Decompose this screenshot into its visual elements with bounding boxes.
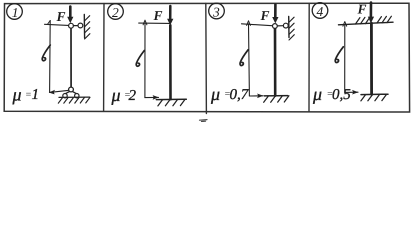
svg-text:3: 3	[212, 4, 220, 19]
ground line panel 1	[59, 96, 90, 98]
top link bar panel 1	[73, 25, 78, 27]
top pin circle panel 3	[273, 24, 278, 29]
svg-text:μ: μ	[210, 84, 220, 104]
wall hatching panel 3	[289, 17, 295, 40]
panel divider 2	[205, 4, 208, 114]
outer border frame	[4, 3, 409, 112]
label l (script ell) panel 2	[136, 51, 144, 67]
left roller panel 1	[63, 94, 67, 98]
circled number 1	[7, 4, 23, 20]
svg-text:1: 1	[12, 5, 19, 20]
ground line panel 2	[156, 98, 186, 100]
column (bar) panel 3	[274, 28, 277, 95]
bottom pin circle panel 1	[69, 87, 74, 92]
svg-text:1: 1	[32, 87, 40, 103]
label l (script ell) panel 4	[335, 47, 343, 63]
label l (script ell) panel 1	[42, 45, 50, 61]
svg-text:4: 4	[317, 4, 324, 19]
svg-text:0,7: 0,7	[230, 87, 250, 103]
label mu=0,7 panel 3	[210, 84, 250, 104]
svg-text:2: 2	[129, 88, 137, 104]
svg-text:F: F	[56, 9, 66, 24]
dimension line l panel 2	[143, 20, 147, 97]
wall line panel 1	[83, 15, 85, 39]
svg-text:F: F	[260, 8, 270, 23]
top roller circle panel 1	[78, 23, 83, 28]
top roller circle panel 3	[283, 23, 288, 28]
circled number 2	[108, 4, 124, 20]
column (bar) panel 2	[169, 25, 172, 99]
top extension line panel 3	[242, 24, 273, 26]
ground hatching panel 3	[264, 96, 289, 102]
top pin circle panel 1	[69, 23, 74, 28]
label l (script ell) panel 3	[240, 50, 248, 66]
dimension line l panel 3	[247, 21, 251, 96]
top extension line panel 2	[139, 22, 170, 24]
column (bar) panel 1	[70, 28, 72, 87]
bottom extension arrow panel 1	[49, 90, 68, 95]
force arrow F panel 2	[167, 6, 173, 25]
ground hatching panel 2	[158, 99, 185, 105]
top link bar panel 3	[277, 25, 283, 27]
svg-text:2: 2	[112, 5, 119, 20]
ground hatching panel 4	[361, 94, 387, 100]
ground hatching panel 1	[58, 97, 90, 103]
ground line panel 4	[361, 93, 388, 95]
bottom extension arrow panel 3	[249, 94, 263, 99]
pin legs panel 1	[66, 91, 77, 93]
svg-text:μ: μ	[12, 85, 22, 105]
right roller panel 1	[75, 94, 79, 98]
bottom extension arrow panel 4	[345, 90, 359, 95]
bottom extension arrow panel 2	[145, 95, 159, 100]
circled number 3	[209, 3, 225, 19]
label mu=2 panel 2	[111, 85, 137, 105]
ceiling line panel 4	[339, 22, 394, 25]
panel divider 1	[103, 4, 105, 112]
label mu=0,5 panel 4	[312, 84, 351, 104]
wall hatching panel 1	[84, 16, 90, 39]
force arrow F panel 4	[368, 3, 374, 24]
dimension line l panel 1	[48, 21, 51, 93]
svg-text:μ: μ	[111, 85, 121, 105]
wall line panel 3	[288, 17, 290, 38]
label mu=1 panel 1	[12, 85, 40, 105]
svg-text:F: F	[357, 2, 367, 17]
top extension line panel 1	[45, 24, 69, 25]
ceiling hatching panel 4	[356, 16, 392, 24]
column (bar) panel 4	[370, 23, 373, 94]
svg-text:F: F	[153, 8, 163, 23]
ground line panel 3	[264, 95, 287, 97]
svg-text:0,5: 0,5	[332, 87, 351, 103]
force arrow F panel 1	[67, 7, 73, 24]
force arrow F panel 3	[272, 5, 278, 24]
panel divider 3	[308, 3, 310, 111]
circled number 4	[312, 3, 328, 19]
caption fragment bottom center	[200, 120, 208, 122]
svg-text:μ: μ	[312, 84, 322, 104]
dimension line l panel 4	[343, 22, 347, 93]
